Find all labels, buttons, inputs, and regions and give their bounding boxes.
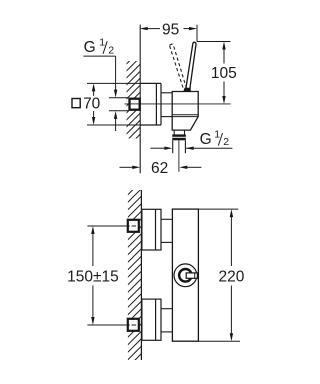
dimension square-70 <box>72 83 101 125</box>
svg-text:220: 220 <box>218 268 244 285</box>
S-union escutcheon upper <box>142 209 161 250</box>
stub lower <box>161 308 172 310</box>
lever base <box>183 88 191 92</box>
escutcheon extension lines / dim 70 extents <box>87 82 140 84</box>
outlet nut (dark) <box>172 134 186 140</box>
nipple axis extension <box>178 140 180 172</box>
wall hatching (top view) <box>124 50 140 157</box>
G1/2 thread extension lines (top view fitting) <box>109 97 128 99</box>
svg-text:1: 1 <box>99 37 105 49</box>
escutcheon (top view) <box>140 83 161 125</box>
dimension 62 <box>120 160 202 177</box>
wall face line (bottom view) <box>140 190 142 360</box>
supply fitting lower <box>128 319 139 331</box>
dimension 150±15 <box>67 226 119 325</box>
supply fitting upper <box>128 220 139 232</box>
mixer body (bottom view) <box>172 209 198 341</box>
wall hatching (bottom view) <box>125 181 142 378</box>
svg-text:2: 2 <box>223 136 229 148</box>
wall fitting square (top view) <box>130 99 140 110</box>
svg-text:G: G <box>200 131 212 148</box>
svg-text:1: 1 <box>214 128 220 140</box>
knob inner ring <box>179 269 192 282</box>
connection stub (top view) <box>161 92 172 94</box>
dimension 95 <box>140 21 197 38</box>
svg-text:95: 95 <box>162 21 179 38</box>
extension line lever tip <box>196 25 198 42</box>
lever handle (dashed alternate position) <box>169 44 186 89</box>
svg-text:2: 2 <box>108 45 114 57</box>
svg-text:70: 70 <box>83 96 101 113</box>
stub upper <box>161 218 172 220</box>
svg-text:G: G <box>84 39 96 56</box>
150 extension lines <box>87 225 126 227</box>
dimension 220 <box>198 209 244 341</box>
lever handle (solid position) <box>186 42 197 91</box>
mixer body (top view) <box>172 92 198 131</box>
label G 1/2 (outlet) <box>150 128 232 150</box>
knob outer circle <box>174 264 197 287</box>
knob tab <box>186 273 197 278</box>
svg-text:62: 62 <box>151 160 168 177</box>
svg-text:150±15: 150±15 <box>67 268 119 285</box>
axis centerline (top view) <box>125 103 231 105</box>
spout outlet stub <box>173 130 175 134</box>
S-union escutcheon lower <box>142 299 161 340</box>
wall face line (top view) <box>139 25 141 174</box>
outlet nipple G1/2 <box>172 140 174 153</box>
dimension 105 <box>197 42 237 105</box>
svg-text:105: 105 <box>211 65 237 82</box>
label G 1/2 (upper) <box>83 37 117 131</box>
